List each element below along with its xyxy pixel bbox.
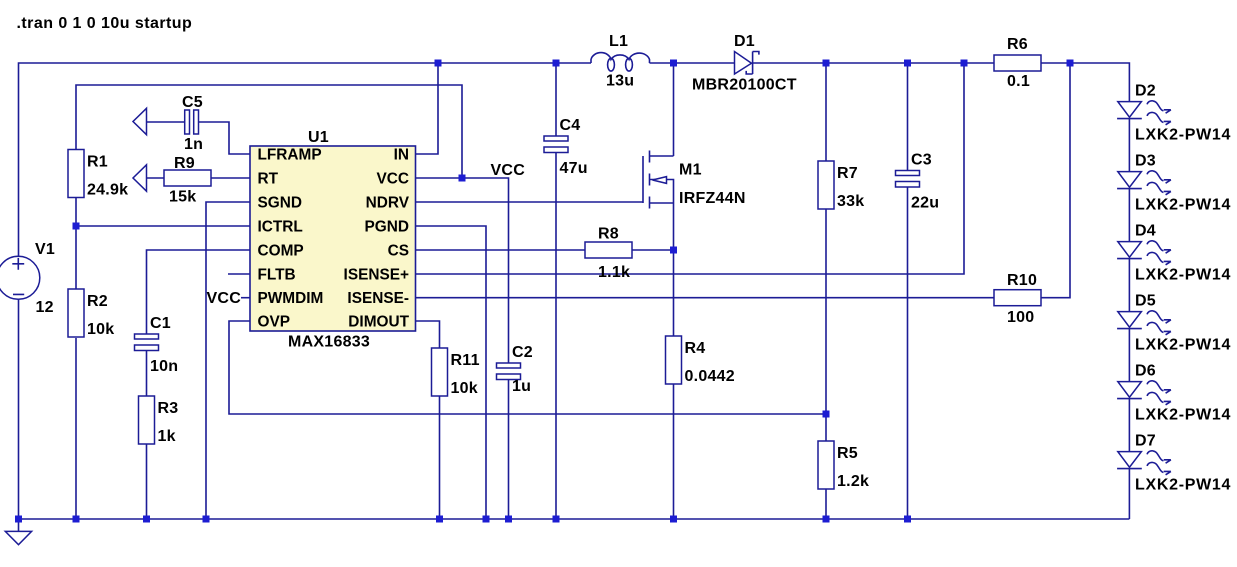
svg-text:R10: R10 (1007, 272, 1037, 289)
resistor R11 (432, 348, 448, 396)
svg-text:LXK2-PW14: LXK2-PW14 (1135, 267, 1231, 284)
svg-text:SGND: SGND (258, 195, 302, 212)
svg-text:15k: 15k (169, 189, 196, 206)
wire OVP loop (229, 321, 826, 414)
wire top rail left (V1 to L1) (19, 63, 592, 257)
node junction rail R3 (143, 516, 150, 523)
wire top rail R6 to LED chain (1041, 63, 1129, 102)
svg-text:LXK2-PW14: LXK2-PW14 (1135, 477, 1231, 494)
svg-text:D4: D4 (1135, 223, 1156, 240)
net flag at RT (133, 165, 147, 191)
capacitor C3 (896, 171, 920, 176)
svg-text:M1: M1 (679, 162, 702, 179)
svg-text:22u: 22u (911, 195, 939, 212)
resistor R1 (68, 150, 84, 198)
svg-text:LXK2-PW14: LXK2-PW14 (1135, 337, 1231, 354)
svg-text:R5: R5 (837, 445, 858, 462)
wire NDRV to M1 gate (416, 201, 644, 203)
wire R8 to M1 source node (632, 249, 674, 251)
svg-text:C1: C1 (150, 315, 171, 332)
node junction rail PGND (483, 516, 490, 523)
inductor L1 (591, 53, 650, 63)
svg-text:10k: 10k (87, 321, 114, 338)
svg-text:R8: R8 (598, 226, 619, 243)
svg-text:LXK2-PW14: LXK2-PW14 (1135, 127, 1231, 144)
op-amp U1 MAX16833 controller (250, 146, 416, 331)
svg-text:PGND: PGND (365, 219, 409, 236)
svg-text:D6: D6 (1135, 363, 1156, 380)
svg-text:100: 100 (1007, 309, 1034, 326)
wire top rail L1 to D1 (650, 62, 735, 64)
svg-text:LFRAMP: LFRAMP (258, 147, 322, 164)
svg-text:R7: R7 (837, 165, 858, 182)
svg-text:RT: RT (258, 171, 279, 188)
wire C1 to R3 (146, 351, 148, 397)
svg-text:R2: R2 (87, 293, 108, 310)
wire M1 drain from rail (673, 63, 675, 156)
LED D3 (1128, 119, 1130, 172)
svg-text:ICTRL: ICTRL (258, 219, 303, 236)
wire R5 top stub (825, 414, 827, 441)
wire C2 bottom to rail (508, 380, 510, 520)
svg-text:VCC: VCC (491, 162, 526, 179)
wire C4 top (555, 63, 557, 136)
wire C5 to LFRAMP (199, 122, 251, 154)
wire LED chain bottom (1128, 469, 1130, 519)
wire R5 bottom to rail (825, 489, 827, 519)
node junction rail C4 (553, 516, 560, 523)
resistor R6 (994, 55, 1041, 71)
resistor R2 (68, 289, 84, 337)
svg-text:10n: 10n (150, 358, 178, 375)
svg-text:R9: R9 (174, 155, 195, 172)
svg-text:C2: C2 (512, 344, 533, 361)
node junction R6 left sense (961, 60, 968, 67)
svg-text:D3: D3 (1135, 153, 1156, 170)
node junction R7 top (823, 60, 830, 67)
wire C5 flag to plate (147, 121, 186, 123)
LED D4 (1128, 189, 1130, 242)
svg-text:ISENSE-: ISENSE- (347, 290, 409, 307)
svg-text:1.2k: 1.2k (837, 473, 869, 490)
wire R10 to R6 right (1041, 63, 1070, 298)
svg-text:R1: R1 (87, 154, 108, 171)
svg-text:C5: C5 (182, 94, 203, 111)
svg-text:47u: 47u (560, 160, 588, 177)
node junction IN/top rail (435, 60, 442, 67)
wire R7 bottom to OVP node (825, 209, 827, 414)
svg-text:COMP: COMP (258, 243, 304, 260)
wire RT flag to R9 (147, 177, 165, 179)
LED D6 (1128, 329, 1130, 382)
net flag at C5 (133, 108, 147, 134)
resistor R7 (818, 161, 834, 209)
wire C4 bottom to rail (555, 153, 557, 519)
resistor R5 (818, 441, 834, 489)
svg-text:0.0442: 0.0442 (685, 368, 735, 385)
svg-text:R4: R4 (685, 340, 706, 357)
node junction rail R11 (436, 516, 443, 523)
node junction rail R2 (73, 516, 80, 523)
wire PGND down to rail (416, 226, 487, 519)
node junction rail V1 (15, 516, 22, 523)
svg-text:10k: 10k (451, 380, 478, 397)
ground (18, 519, 20, 531)
svg-text:MBR20100CT: MBR20100CT (692, 77, 797, 94)
wire C3 top (907, 63, 909, 171)
node junction VCC pin (459, 175, 466, 182)
node junction rail C3 (904, 516, 911, 523)
svg-text:.tran 0 1 0 10u startup: .tran 0 1 0 10u startup (17, 15, 193, 32)
svg-text:VCC: VCC (206, 290, 241, 307)
node junction rail C2 (505, 516, 512, 523)
wire R9 to RT pin (211, 177, 250, 179)
wire top rail D1 to R6 (753, 62, 995, 64)
svg-text:12: 12 (36, 299, 54, 316)
svg-text:L1: L1 (609, 33, 628, 50)
resistor R10 (994, 290, 1041, 306)
svg-text:24.9k: 24.9k (87, 182, 128, 199)
capacitor C2 (497, 363, 521, 368)
wire R1 bottom to R2 top (75, 197, 77, 289)
node junction rail SGND (203, 516, 210, 523)
diode D1 (735, 52, 752, 75)
svg-text:1.1k: 1.1k (598, 264, 630, 281)
svg-text:R6: R6 (1007, 36, 1028, 53)
wire V1 bottom to ground rail (18, 300, 20, 520)
wire VCC feed from R1 top (76, 85, 462, 178)
wire R2 bottom to rail (75, 338, 77, 519)
svg-text:1k: 1k (158, 428, 176, 445)
wire ISENSE- to R10 (416, 297, 995, 299)
svg-text:PWMDIM: PWMDIM (258, 290, 324, 307)
wire R3 bottom to rail (146, 444, 148, 519)
voltage source V1 (0, 256, 40, 299)
capacitor C5 (185, 110, 190, 134)
wire M1 source to R4 (673, 203, 675, 336)
svg-text:R3: R3 (158, 400, 179, 417)
svg-text:NDRV: NDRV (366, 195, 410, 212)
svg-text:OVP: OVP (258, 314, 291, 331)
wire FLTB stub (228, 273, 250, 275)
transistor M1 (643, 151, 674, 209)
svg-text:IRFZ44N: IRFZ44N (679, 190, 746, 207)
svg-text:33k: 33k (837, 193, 864, 210)
node junction rail R4 (670, 516, 677, 523)
node junction CS/R8/M1 source (670, 247, 677, 254)
wire R11 bottom to rail (439, 396, 441, 519)
wire ICTRL (76, 225, 250, 227)
node junction L1/M1 drain (670, 60, 677, 67)
wire IN to top rail (416, 63, 439, 154)
LED D7 (1128, 399, 1130, 452)
resistor R3 (139, 396, 155, 444)
svg-text:13u: 13u (606, 73, 634, 90)
svg-text:R11: R11 (451, 352, 480, 369)
node junction R6 right sense (1067, 60, 1074, 67)
svg-text:LXK2-PW14: LXK2-PW14 (1135, 407, 1231, 424)
svg-text:C3: C3 (911, 152, 932, 169)
node junction C4/L1 (553, 60, 560, 67)
resistor R8 (585, 242, 632, 258)
wire COMP to C1 (147, 250, 251, 334)
svg-text:D5: D5 (1135, 293, 1156, 310)
LED D5 (1128, 259, 1130, 312)
svg-text:VCC: VCC (377, 171, 410, 188)
resistor R4 (666, 336, 682, 384)
svg-text:0.1: 0.1 (1007, 73, 1030, 90)
wire R4 bottom to rail (673, 384, 675, 519)
node junction OVP/R7/R5 (823, 411, 830, 418)
wire VCC pin to C2 top (416, 178, 509, 363)
wire C3 bottom to rail (907, 187, 909, 520)
svg-text:MAX16833: MAX16833 (288, 334, 370, 351)
LED D2 (1117, 101, 1171, 125)
svg-text:LXK2-PW14: LXK2-PW14 (1135, 197, 1231, 214)
svg-text:C4: C4 (560, 117, 581, 134)
wire CS to R8 (416, 249, 586, 251)
svg-text:IN: IN (394, 147, 409, 164)
capacitor C1 (135, 334, 159, 339)
ground rail (19, 518, 1130, 520)
svg-text:CS: CS (388, 243, 409, 260)
svg-text:1n: 1n (184, 136, 203, 153)
wire R7 top (825, 63, 827, 161)
node junction C3 top (904, 60, 911, 67)
svg-text:D2: D2 (1135, 83, 1156, 100)
svg-text:U1: U1 (308, 129, 329, 146)
wire DIMOUT to R11 (416, 321, 440, 348)
svg-text:1u: 1u (512, 378, 531, 395)
svg-text:V1: V1 (35, 241, 55, 258)
svg-text:DIMOUT: DIMOUT (348, 314, 409, 331)
svg-text:D1: D1 (734, 33, 755, 50)
svg-text:D7: D7 (1135, 433, 1156, 450)
node junction ICTRL divider (73, 223, 80, 230)
wire PWMDIM stub (241, 297, 250, 299)
svg-text:ISENSE+: ISENSE+ (344, 267, 409, 284)
wire SGND down to rail (206, 202, 250, 519)
capacitor C4 (544, 136, 568, 141)
node junction rail R5 (823, 516, 830, 523)
svg-text:FLTB: FLTB (258, 267, 296, 284)
resistor R9 (164, 170, 211, 186)
wire ISENSE+ to R6 left (416, 63, 965, 274)
